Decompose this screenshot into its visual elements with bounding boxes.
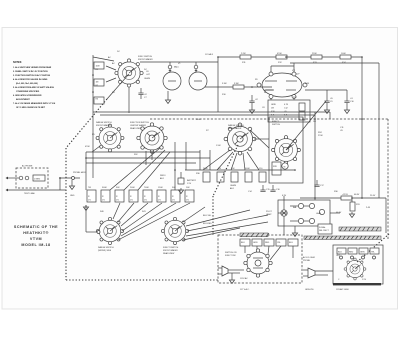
dashed chassis line (150, 118, 388, 120)
rotary switch range rear wafer (224, 123, 256, 155)
capacitor C8 (251, 95, 253, 101)
svg-text:470K: 470K (277, 53, 282, 55)
wire V1 top leads (169, 62, 171, 65)
svg-text:1%: 1% (130, 200, 133, 202)
svg-text:MODEL IM-18: MODEL IM-18 (21, 243, 50, 247)
svg-text:3.3M: 3.3M (234, 83, 239, 85)
right B+ bus (300, 197, 386, 199)
svg-text:1/2 6AL5: 1/2 6AL5 (205, 53, 214, 56)
resistor bridge r28 (259, 172, 266, 182)
svg-text:200K: 200K (203, 168, 208, 170)
svg-text:RANGE SWITCH: RANGE SWITCH (96, 121, 112, 124)
svg-text:10M: 10M (96, 66, 100, 68)
resistor R3 (94, 97, 104, 104)
svg-text:RANGE SWITCH: RANGE SWITCH (98, 246, 114, 249)
wire fan lower left switch (113, 203, 120, 219)
svg-text:GRN: GRN (253, 242, 258, 244)
probe plug right (308, 268, 315, 278)
svg-text:AC-DC-OHM: AC-DC-OHM (303, 256, 315, 259)
svg-text:OHMS: OHMS (144, 78, 151, 80)
svg-text:BLK: BLK (338, 252, 342, 254)
wire left input rail (92, 55, 94, 178)
svg-text:BATTERY: BATTERY (187, 179, 197, 182)
svg-text:PROBE JACK: PROBE JACK (73, 171, 86, 174)
meter bridge box (278, 200, 330, 226)
resistor probe 1M (33, 175, 45, 181)
svg-text:6.8K: 6.8K (305, 83, 310, 85)
wire V2 cathode drop (270, 99, 272, 101)
hatched strip left (240, 233, 268, 237)
ground plug (231, 273, 233, 278)
wire test lead (8, 177, 19, 179)
wire bundle horizontals (93, 111, 330, 113)
wire right drop (361, 57, 363, 198)
svg-text:BLU: BLU (289, 242, 293, 244)
capacitor C7 (138, 93, 143, 95)
node dots (59, 56, 363, 199)
resistor R14 (340, 55, 351, 59)
wire pilot drop (283, 216, 285, 235)
svg-text:GRN-YEL: GRN-YEL (305, 289, 315, 291)
svg-text:115V AC: 115V AC (240, 277, 248, 280)
wire top bus (218, 56, 362, 58)
wire fan lower right switch (183, 207, 205, 222)
probe terminal boxes (337, 248, 346, 254)
svg-text:FUNC SWITCH: FUNC SWITCH (138, 56, 153, 58)
svg-text:4. ALL RESISTOR VALUES IN OHM: 4. ALL RESISTOR VALUES IN OHMS (13, 78, 48, 81)
resistor R12 (276, 55, 287, 59)
switch box function rear (269, 117, 303, 183)
selenium box (318, 224, 332, 234)
svg-text:REAR WAFER: REAR WAFER (228, 127, 242, 130)
wire S1A stem (128, 88, 130, 114)
wire fan upper switches to row (92, 146, 100, 152)
dash-dot linkage 2 (213, 145, 238, 196)
svg-text:FRONT WAFER: FRONT WAFER (163, 249, 178, 252)
capacitor C16 (272, 185, 274, 190)
diode D4 (309, 218, 314, 223)
tube V1 6AL5 (163, 72, 181, 90)
svg-text:GRID: GRID (271, 104, 277, 106)
resistor R31 (350, 202, 355, 211)
svg-text:1.5V: 1.5V (362, 279, 367, 281)
wire S_E rotor pointer (286, 101, 326, 150)
svg-text:REAR VIEW: REAR VIEW (163, 252, 174, 255)
svg-text:1.5M: 1.5M (216, 145, 221, 147)
svg-text:FUNCT SW: FUNCT SW (225, 255, 236, 257)
svg-text:1.5V: 1.5V (187, 183, 192, 185)
svg-text:HEATHKIT®: HEATHKIT® (23, 231, 49, 235)
right probe box (333, 245, 383, 284)
svg-text:1M: 1M (271, 108, 274, 110)
svg-text:900K: 900K (102, 187, 107, 189)
wire meter link (278, 212, 287, 214)
svg-text:115VAC 50/60: 115VAC 50/60 (336, 288, 350, 291)
meter M1 (282, 163, 288, 169)
svg-text:PROBE: PROBE (303, 260, 311, 262)
svg-text:1%: 1% (158, 200, 161, 202)
svg-text:23.4V: 23.4V (370, 195, 376, 197)
svg-text:RED: RED (349, 252, 354, 254)
svg-text:470K: 470K (85, 146, 90, 148)
wire rail top (93, 57, 114, 61)
line plug left (222, 266, 228, 276)
probe connector (19, 176, 23, 180)
resistor inside switch box (272, 162, 281, 175)
wire pilot feed (283, 196, 285, 210)
svg-text:1 MEG: 1 MEG (34, 179, 41, 181)
svg-text:7. ALL VOLTAGES MEASURED WITH: 7. ALL VOLTAGES MEASURED WITH V.T.V.M (13, 102, 55, 105)
svg-text:1. ALL SWITCHES VIEWED FROM R: 1. ALL SWITCHES VIEWED FROM REAR (13, 66, 52, 69)
svg-text:2.2M: 2.2M (241, 53, 246, 55)
wire v2 top (326, 90, 328, 95)
svg-text:FUNCTION SWITCH: FUNCTION SWITCH (130, 122, 149, 124)
svg-text:6. INDICATES SCREWDRIVER: 6. INDICATES SCREWDRIVER (13, 94, 42, 97)
svg-text:GRN: GRN (360, 252, 365, 254)
battery B1 (180, 172, 182, 178)
wire probe to row (85, 178, 87, 190)
resistor row range divider (87, 187, 194, 202)
svg-text:46.8V: 46.8V (336, 212, 342, 214)
svg-text:CENTER WAFER: CENTER WAFER (130, 124, 146, 127)
svg-text:RED: RED (265, 242, 270, 244)
capacitor C15 (262, 185, 264, 190)
rotary switch probe (344, 258, 366, 280)
svg-text:FRONT WAFER: FRONT WAFER (138, 58, 153, 61)
svg-text:150K: 150K (158, 187, 163, 189)
svg-text:100K: 100K (196, 119, 201, 121)
svg-text:1M: 1M (313, 121, 316, 123)
svg-text:OF 11 MEG OHMS/VOLTS MET: OF 11 MEG OHMS/VOLTS MET (16, 107, 46, 109)
svg-text:PILOT: PILOT (266, 211, 273, 213)
svg-text:SWITCH: SWITCH (272, 124, 280, 126)
svg-text:1%: 1% (144, 200, 147, 202)
svg-text:2. PANEL SWITCH IN 1.5V POSIT: 2. PANEL SWITCH IN 1.5V POSITION (13, 70, 48, 73)
svg-text:BLK-YEL: BLK-YEL (203, 215, 212, 217)
tube V2 12AU7 (262, 73, 302, 97)
wires from lower area to power box (85, 205, 87, 232)
dash-dot linkage 1 (107, 74, 129, 99)
svg-text:700K: 700K (144, 187, 149, 189)
svg-text:SWITCH ON: SWITCH ON (225, 252, 237, 254)
diode D5 (319, 209, 324, 214)
svg-text:3.3M: 3.3M (222, 83, 227, 85)
svg-text:ADJ: ADJ (160, 177, 164, 180)
resistor R2 (94, 79, 104, 86)
wire S1A to rail (106, 66, 116, 70)
svg-text:OTHERWISE SPECIFIED: OTHERWISE SPECIFIED (16, 91, 40, 93)
wire fan range rear to row (203, 150, 230, 170)
resistor bridge r26 (231, 172, 238, 182)
resistor R10 3.3M (233, 85, 244, 89)
hatched cable strip upper (339, 227, 381, 231)
resistor R13 (311, 55, 322, 59)
svg-text:LAMP: LAMP (266, 213, 272, 216)
wire second bus (290, 62, 379, 64)
wire b+ drop (314, 190, 316, 200)
value labels texture (70, 51, 376, 291)
resistor bridge r24 (203, 172, 210, 182)
svg-text:TEST LEAD: TEST LEAD (24, 192, 35, 195)
capacitor C9 (326, 95, 328, 101)
svg-text:200K: 200K (130, 187, 135, 189)
svg-text:NOTES:: NOTES: (13, 61, 22, 64)
probe dashed box (16, 168, 48, 188)
wire transformer lead drops (244, 246, 246, 253)
title block (14, 225, 58, 247)
svg-text:ZERO: ZERO (160, 175, 166, 177)
transformer T1 (247, 252, 269, 274)
svg-text:3. FUNCTION SWITCH IN AC POSI: 3. FUNCTION SWITCH IN AC POSITION (13, 74, 51, 77)
svg-text:1%: 1% (186, 200, 189, 202)
rotary switch range rear left (96, 124, 124, 152)
svg-text:RANGE SWITCH: RANGE SWITCH (228, 124, 244, 127)
svg-text:100K: 100K (341, 53, 346, 55)
svg-text:R-DIAL: R-DIAL (319, 226, 326, 229)
dash-dot linkage 3 (357, 234, 389, 262)
rotary switch S1A function front (115, 59, 143, 87)
svg-text:BLK: BLK (241, 242, 245, 244)
rotary switch function center (137, 123, 167, 153)
svg-text:6.3V: 6.3V (282, 195, 287, 197)
svg-text:LEAF: LEAF (316, 212, 322, 215)
bus bridge row (185, 169, 295, 171)
svg-text:46.8V: 46.8V (354, 194, 360, 196)
svg-text:4.7K: 4.7K (284, 104, 289, 106)
svg-text:ADJUSTMENT: ADJUSTMENT (16, 98, 30, 101)
svg-text:ADJ: ADJ (230, 187, 234, 190)
resistor R1 (94, 62, 104, 69)
svg-text:1%: 1% (88, 200, 91, 202)
svg-text:VTVM: VTVM (30, 237, 42, 241)
svg-text:+215V: +215V (342, 194, 349, 196)
svg-text:BLK-RED: BLK-RED (203, 223, 212, 225)
hatched cable strip long (304, 236, 381, 239)
svg-text:270K: 270K (318, 135, 323, 137)
svg-text:5. ALL RESISTORS ARE 1/2 WATT: 5. ALL RESISTORS ARE 1/2 WATT UNLESS (13, 86, 55, 89)
rotary switch function lower (161, 217, 188, 244)
resistor R11 (240, 55, 251, 59)
transformer terminal boxes (240, 239, 250, 246)
svg-text:OHMS: OHMS (230, 185, 237, 187)
svg-text:1%: 1% (102, 200, 105, 202)
diode D1 (298, 203, 303, 208)
ground bridge (294, 226, 296, 231)
diode D2 (309, 203, 314, 208)
svg-text:AC PROBE: AC PROBE (22, 165, 33, 168)
notes text block (13, 61, 55, 109)
svg-text:SCHEMATIC OF THE: SCHEMATIC OF THE (14, 225, 58, 229)
svg-text:117 V.A.C.: 117 V.A.C. (240, 288, 250, 291)
svg-text:1%: 1% (116, 200, 119, 202)
svg-text:7M: 7M (88, 187, 91, 189)
svg-text:FRONT WAFER: FRONT WAFER (96, 124, 111, 127)
resistor bridge r27 (245, 172, 252, 182)
svg-text:2.4K: 2.4K (366, 207, 371, 209)
svg-text:SEL RECT: SEL RECT (319, 230, 329, 232)
svg-text:220K: 220K (312, 53, 317, 55)
svg-text:GND: GND (70, 195, 75, 197)
diode D3 (298, 218, 303, 223)
probe terminal lugs (340, 256, 343, 259)
wire V2 plate up (293, 63, 295, 72)
power transformer dashed box (218, 235, 302, 283)
svg-text:1%: 1% (172, 200, 175, 202)
capacitor C17 (316, 180, 318, 185)
heavy bottom bar (333, 283, 381, 285)
svg-text:FUNCT SWITCH: FUNCT SWITCH (163, 247, 179, 249)
svg-text:FUNCT: FUNCT (272, 121, 280, 123)
svg-text:1M: 1M (96, 82, 99, 84)
svg-text:1M: 1M (218, 168, 221, 170)
svg-text:REAR VIEW: REAR VIEW (130, 127, 141, 130)
wire top link (140, 61, 218, 63)
svg-text:(WIPER) SIDE: (WIPER) SIDE (98, 250, 112, 252)
resistor network box (268, 100, 310, 122)
resistor bridge r25 (217, 172, 224, 182)
resistor R30 (341, 196, 352, 200)
capacitor C10 (346, 95, 348, 101)
svg-text:(K=1,000, M=1,000,000): (K=1,000, M=1,000,000) (16, 83, 38, 85)
svg-text:500K: 500K (245, 168, 250, 170)
rotary switch range front lower (96, 217, 123, 244)
wire grid line (205, 86, 272, 88)
ground V1 cathode (167, 91, 169, 98)
